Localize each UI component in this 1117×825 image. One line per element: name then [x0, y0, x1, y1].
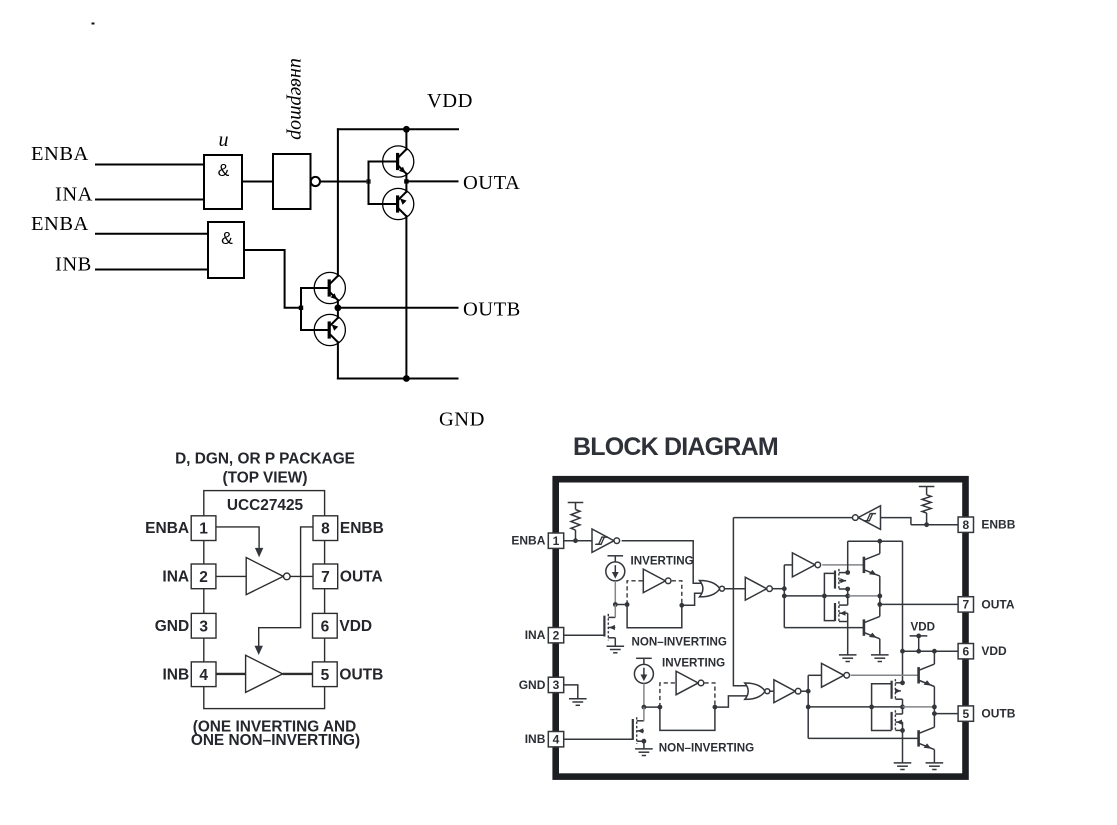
wire pin3 GND [564, 685, 578, 699]
node B3 [713, 705, 718, 710]
svg-text:6: 6 [962, 645, 969, 659]
svg-text:1: 1 [553, 534, 560, 548]
wire ENBB enable vertical to NOR B [733, 518, 746, 686]
svg-text:ENBB: ENBB [981, 518, 1015, 532]
input MOSFET M-INA [604, 614, 615, 641]
wire Q4 emitter to OUTB node [337, 308, 339, 318]
wire node B3 to NOR B lower input [715, 696, 747, 707]
wire inverter to driver A bases [320, 181, 369, 183]
wire M-INA drain up [614, 605, 616, 618]
node B6 [869, 705, 874, 710]
svg-text:8: 8 [962, 518, 969, 532]
GND rail [338, 378, 458, 380]
ground under M-INB [635, 749, 653, 756]
svg-text:2: 2 [553, 629, 560, 643]
wire OUTB [338, 307, 458, 309]
NOR gate A [700, 581, 720, 597]
svg-text:NON–INVERTING: NON–INVERTING [632, 636, 727, 649]
VDD bus vertical [902, 541, 904, 683]
wire schmitt A to NOR A input [622, 541, 702, 584]
pullup resistor R-ENBA [571, 503, 580, 541]
svg-text:VDD: VDD [339, 618, 372, 635]
ground under stage B left [894, 763, 912, 770]
node V3 [932, 649, 937, 654]
wire gate rect A to mos column [824, 595, 847, 597]
wire Q2 emitter to OUTA node [405, 181, 407, 191]
junction node OUTB [335, 304, 342, 311]
node A10 [845, 587, 850, 592]
stray dot mark [92, 23, 95, 25]
N-MOSFET output B [892, 710, 903, 732]
svg-text:INA: INA [55, 184, 93, 206]
svg-text:ENBA: ENBA [145, 520, 189, 537]
node A5 [782, 594, 787, 599]
node A12 [877, 602, 882, 607]
svg-text:3: 3 [199, 618, 208, 635]
svg-text:7: 7 [321, 569, 330, 586]
base wire Q1 [369, 161, 397, 163]
svg-text:3: 3 [553, 678, 560, 692]
wire pin2 INA to input fet gate [564, 634, 605, 636]
svg-text:6: 6 [321, 618, 330, 635]
base wire Q2 [369, 203, 397, 205]
wire Q1 collector to VDD rail [405, 129, 407, 149]
node A4 [782, 586, 787, 591]
svg-text:INB: INB [55, 254, 92, 276]
node V2 [916, 649, 921, 654]
svg-text:UCC27425: UCC27425 [227, 497, 304, 514]
package pin 8 (ENBB) [313, 516, 338, 541]
wire pin8 to schmitt B [911, 524, 959, 526]
wire AND B output to driver B [244, 250, 299, 308]
wire Q2 collector down to GND rail [405, 216, 407, 378]
svg-text:OUTB: OUTB [463, 299, 521, 321]
wire Q3 emitter to OUTB node [337, 300, 339, 308]
wire buffer A1 out [772, 588, 784, 590]
svg-text:GND: GND [439, 409, 485, 431]
node B2 [658, 705, 663, 710]
svg-text:NON–INVERTING: NON–INVERTING [659, 742, 754, 755]
arrowhead into driver B [255, 646, 263, 655]
base wire Q3 [301, 287, 328, 289]
svg-text:ENBA: ENBA [31, 213, 89, 235]
node B8 [932, 705, 937, 710]
svg-text:5: 5 [962, 707, 969, 721]
wire node B1 to dashed box [644, 706, 660, 708]
wire NOR A out to buffer A1 [725, 588, 746, 590]
package body outline [204, 491, 325, 709]
node B11 [932, 711, 937, 716]
wire to buffer B2 [808, 674, 821, 676]
svg-text:(TOP VIEW): (TOP VIEW) [223, 470, 308, 487]
svg-text:4: 4 [199, 667, 208, 684]
block pin 5 (OUTB) [958, 706, 973, 721]
schmitt buffer U-ENBB (points left) [853, 506, 881, 530]
P-MOSFET output A [835, 569, 848, 591]
junction node on GND rail [403, 375, 410, 382]
stub column A mid segment [847, 589, 849, 605]
wire buffer B2 to Q7 base (gray) [851, 674, 918, 676]
svg-text:OUTB: OUTB [339, 666, 383, 683]
package pin 1 (ENBA) [191, 516, 216, 541]
wire buffer B1 out [801, 690, 808, 692]
dashed output of inverter option B [705, 683, 715, 707]
svg-text:ENBA: ENBA [511, 534, 545, 548]
block pin 7 (OUTA) [958, 597, 973, 612]
drive bus B vertical [807, 675, 809, 738]
wire pin2 to inverter [216, 575, 246, 577]
svg-text:INB: INB [525, 732, 546, 746]
svg-text:ENBA: ENBA [31, 143, 89, 165]
ground under stage A left [839, 655, 857, 662]
non-inverting buffer triangle (driver B) [246, 655, 283, 692]
P-MOSFET output B [892, 679, 903, 701]
dashed input to inverter option A [627, 581, 643, 605]
node B12 [642, 739, 647, 744]
N-MOSFET output A [835, 601, 848, 623]
AND gate B (IEC box) [208, 222, 244, 278]
drive bus A vertical [783, 565, 785, 628]
wire Q7 emitter to OUTB node [933, 707, 935, 714]
svg-text:OUTA: OUTA [340, 568, 383, 585]
svg-text:1: 1 [199, 521, 208, 538]
wire OUTB to pin5 [934, 713, 958, 715]
node ENBB [924, 522, 929, 527]
wire NOR B out to buffer B1 [770, 690, 774, 692]
junction node base bus A [366, 179, 370, 183]
wire mos mid to Q column B (gray) [903, 706, 935, 708]
inverter bubble [284, 573, 291, 580]
stub column A upper segment [847, 541, 849, 572]
ground under stage B right [926, 763, 944, 770]
wire to buffer A2 [784, 564, 792, 566]
dashed input to inverter option B [660, 683, 676, 707]
AND gate A (IEC box) [204, 155, 242, 209]
base bus B vertical [300, 288, 302, 330]
node B1 [642, 705, 647, 710]
svg-text:и: и [219, 129, 229, 151]
svg-text:ONE NON–INVERTING): ONE NON–INVERTING) [191, 732, 360, 749]
wire Q1 emitter to OUTA node [405, 174, 407, 182]
wire current source B to node [643, 683, 645, 707]
inverter option triangle A [643, 569, 665, 593]
node ENBA [573, 538, 578, 543]
svg-text:OUTA: OUTA [981, 597, 1014, 611]
pullup resistor R-ENBA supply bar [568, 502, 584, 504]
buffer B1 [774, 680, 795, 703]
block pin 3 (GND) [548, 677, 563, 692]
wire drive to gate rect A [784, 595, 824, 597]
package pin 2 (INA) [191, 564, 216, 589]
node A8 [877, 594, 882, 599]
svg-text:инвертор: инвертор [286, 58, 308, 140]
wire M-INA source down [614, 638, 616, 646]
node A7 [845, 594, 850, 599]
package pin 3 (GND) [191, 613, 216, 638]
wire Q5 emitter to OUTA node [879, 596, 881, 605]
wire INB to AND B [96, 269, 208, 271]
stub column B lower segment [902, 722, 904, 763]
dashed output of inverter option A [672, 581, 682, 606]
wire OUTA to pin7 [880, 603, 959, 605]
node B10 [900, 728, 905, 733]
block pin 4 (INB) [548, 732, 563, 747]
package pin 4 (INB) [191, 662, 216, 687]
node A9 [845, 570, 850, 575]
wire pin8 ENBB to driver B arrow [259, 527, 313, 647]
wire Q4 collector to GND rail [337, 342, 339, 378]
stub column B mid segment [902, 699, 904, 714]
svg-text:5: 5 [321, 667, 330, 684]
svg-text:INVERTING: INVERTING [662, 657, 725, 670]
wire M-INB source down [643, 741, 645, 749]
wire mos mid to Q column (gray) [848, 595, 880, 597]
wire pin1 to inverter arrow [216, 527, 259, 550]
svg-text:&: & [218, 160, 230, 180]
bipolar Q7 (pull-up B) [919, 651, 935, 707]
solid non-inverting bypass A [627, 605, 682, 628]
svg-text:INVERTING: INVERTING [631, 555, 694, 568]
NOR gate B [745, 683, 765, 699]
transistor Q2 (PNP, OUTA pull-down) [383, 188, 414, 219]
wire schmitt B to enable bus [733, 517, 852, 519]
VDD rail [338, 128, 458, 130]
svg-text:VDD: VDD [981, 644, 1007, 658]
buffer A2 (pull-up predriver) [792, 553, 815, 577]
bipolar Q6 (pull-down A) [864, 604, 880, 655]
base bus A vertical [368, 162, 370, 205]
node A1 [613, 602, 618, 607]
svg-text:4: 4 [553, 733, 560, 747]
input MOSFET M-INB [633, 717, 644, 744]
wire ENBA to AND B [96, 233, 208, 235]
block pin 6 (VDD) [958, 644, 973, 659]
buffer A1 [745, 577, 766, 600]
base wire Q4 [301, 329, 328, 331]
wire drive to Q8 base [808, 737, 918, 739]
buffer B2 (pull-up predriver) [822, 663, 844, 687]
schmitt buffer U-ENBA [592, 529, 620, 552]
node B7 [900, 705, 905, 710]
transistor Q4 (PNP, OUTB pull-down) [314, 314, 345, 345]
top rail A [848, 540, 903, 542]
svg-text:ENBB: ENBB [340, 520, 384, 537]
wire pin1 to schmitt A [564, 540, 592, 542]
wire step to schmitt B [881, 518, 911, 525]
package pin 7 (OUTA) [313, 564, 338, 589]
junction node OUTA [404, 179, 408, 183]
node A3 [679, 603, 684, 608]
svg-text:GND: GND [155, 618, 189, 635]
node A2 [625, 602, 630, 607]
svg-text:VDD: VDD [427, 90, 473, 112]
wire M-INB drain up [643, 707, 645, 721]
pullup resistor R-ENBB [922, 487, 931, 525]
block pin 8 (ENBB) [958, 517, 973, 532]
wire bubble to pin7 [290, 575, 313, 577]
gate bus rectangle A [824, 573, 835, 620]
wire INA to AND A [96, 199, 204, 201]
svg-text:7: 7 [962, 598, 969, 612]
block pin 1 (ENBA) [548, 533, 563, 548]
thick outer border [556, 479, 966, 776]
node B9 [900, 680, 905, 685]
inverter triangle (driver A) [246, 558, 283, 595]
node V1 [900, 649, 905, 654]
wire pin4 to buffer B (thick) [216, 673, 246, 675]
VDD tap symbol [910, 634, 928, 652]
bipolar Q8 (pull-down B) [919, 714, 935, 763]
svg-text:VDD: VDD [911, 621, 935, 634]
node B4 [806, 689, 811, 694]
wire drive to Q6 base [784, 627, 863, 629]
svg-text:&: & [221, 228, 233, 248]
current source IA [606, 556, 625, 581]
inverter output bubble [311, 177, 320, 186]
svg-text:2: 2 [199, 569, 208, 586]
junction node on VDD rail [403, 126, 410, 133]
node B5 [806, 705, 811, 710]
wire node A3 to NOR A lower input [682, 593, 702, 605]
svg-text:INA: INA [162, 568, 189, 585]
pullup resistor R-ENBB supply bar [919, 486, 935, 488]
wire drive to gate rect B [808, 706, 871, 708]
node A11 [877, 539, 882, 544]
current source IB [634, 658, 653, 683]
svg-text:OUTB: OUTB [981, 707, 1015, 721]
transistor Q1 (NPN, OUTA pull-up) [383, 146, 414, 177]
transistor Q3 (NPN, OUTB pull-up) [314, 272, 345, 303]
arrowhead into inverter A [255, 548, 263, 557]
svg-text:OUTA: OUTA [463, 172, 520, 194]
svg-text:8: 8 [321, 521, 330, 538]
svg-text:GND: GND [519, 678, 546, 692]
svg-text:INB: INB [162, 666, 189, 683]
wire pin4 INB to input fet gate [564, 738, 633, 740]
wire buffer A2 to Q5 base (gray) [822, 564, 863, 566]
bipolar Q5 (pull-up A) [864, 541, 880, 596]
wire buffer B to pin5 (thick) [283, 673, 313, 675]
solid non-inverting bypass B [660, 707, 715, 730]
svg-text:D, DGN, OR P PACKAGE: D, DGN, OR P PACKAGE [175, 451, 355, 468]
ground under M-INA [607, 646, 625, 653]
ground at pin3 [569, 699, 587, 706]
wire gate rect B to mos column [872, 706, 903, 708]
wire ENBA to AND A [96, 164, 204, 166]
pin6 VDD rail [903, 650, 959, 652]
ground under stage A right [871, 655, 889, 662]
wire current source A to node [614, 581, 616, 605]
junction node base bus B [299, 306, 303, 310]
package pin 5 (OUTB) [313, 662, 338, 687]
node A6 [822, 594, 827, 599]
gate bus rectangle B [872, 684, 892, 731]
wire OUTA [406, 180, 457, 182]
wire node A1 to dashed box [615, 604, 627, 606]
wire VDD rail down to Q3 collector [337, 129, 339, 275]
block pin 2 (INA) [548, 628, 563, 643]
inverter option triangle B [676, 671, 698, 695]
stub column A lower segment [847, 613, 849, 655]
svg-text:BLOCK DIAGRAM: BLOCK DIAGRAM [573, 433, 778, 461]
svg-text:INA: INA [525, 628, 546, 642]
wire AND A to inverter [242, 181, 273, 183]
package pin 6 (VDD) [313, 613, 338, 638]
inverter box [273, 154, 311, 209]
